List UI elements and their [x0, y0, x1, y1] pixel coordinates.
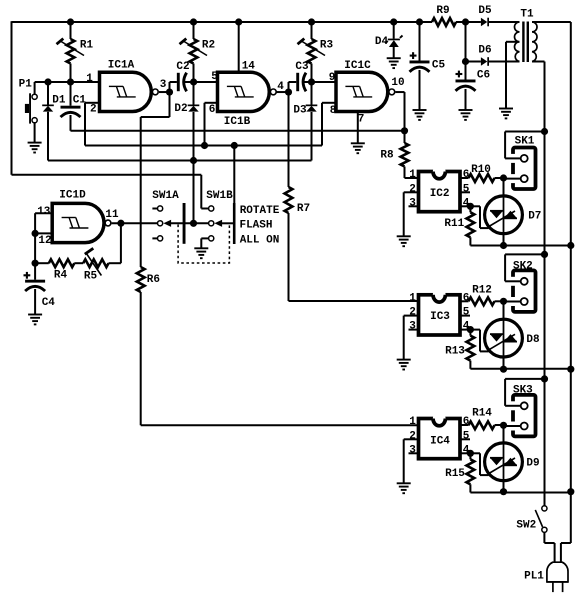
svg-text:FLASH: FLASH [239, 220, 272, 232]
svg-text:5: 5 [463, 430, 470, 442]
svg-text:D7: D7 [528, 211, 541, 223]
svg-text:1: 1 [409, 169, 416, 181]
svg-text:ALL ON: ALL ON [240, 235, 280, 247]
svg-text:3: 3 [409, 197, 416, 209]
svg-text:R15: R15 [445, 468, 465, 480]
svg-text:1: 1 [409, 416, 416, 428]
svg-text:IC1D: IC1D [59, 190, 86, 202]
svg-text:7: 7 [358, 114, 365, 126]
svg-text:PL1: PL1 [524, 571, 544, 583]
svg-text:14: 14 [242, 61, 256, 73]
svg-text:R13: R13 [445, 346, 465, 358]
svg-text:5: 5 [463, 307, 470, 319]
svg-text:R10: R10 [471, 164, 491, 176]
svg-text:4: 4 [463, 444, 470, 456]
svg-text:C5: C5 [432, 60, 446, 72]
svg-text:4: 4 [277, 81, 284, 93]
svg-text:R14: R14 [472, 408, 492, 420]
svg-text:SW1B: SW1B [206, 190, 233, 202]
svg-text:2: 2 [409, 183, 416, 195]
svg-text:6: 6 [463, 169, 470, 181]
svg-text:R9: R9 [436, 5, 449, 17]
svg-text:2: 2 [409, 307, 416, 319]
svg-text:R4: R4 [54, 270, 68, 282]
svg-text:SK3: SK3 [513, 385, 533, 397]
svg-text:SK2: SK2 [513, 261, 533, 273]
svg-text:11: 11 [105, 209, 119, 221]
svg-text:4: 4 [463, 197, 470, 209]
svg-text:R6: R6 [147, 274, 160, 286]
svg-text:IC1A: IC1A [108, 60, 135, 72]
svg-text:R8: R8 [380, 150, 394, 162]
svg-text:3: 3 [409, 444, 416, 456]
svg-text:SK1: SK1 [515, 136, 535, 148]
svg-text:C4: C4 [42, 297, 56, 309]
svg-text:D1: D1 [52, 95, 66, 107]
svg-text:D3: D3 [293, 105, 307, 117]
svg-text:T1: T1 [520, 9, 534, 21]
svg-text:D9: D9 [526, 458, 539, 470]
svg-text:R7: R7 [297, 203, 310, 215]
svg-text:5: 5 [211, 71, 218, 83]
svg-text:R5: R5 [84, 271, 98, 283]
svg-text:5: 5 [463, 183, 470, 195]
svg-text:IC2: IC2 [430, 188, 450, 200]
svg-text:2: 2 [90, 104, 97, 116]
svg-text:D2: D2 [174, 103, 187, 115]
svg-text:3: 3 [160, 79, 167, 91]
svg-text:C3: C3 [295, 61, 309, 73]
svg-text:13: 13 [37, 206, 51, 218]
svg-text:D4: D4 [375, 36, 389, 48]
svg-text:1: 1 [409, 292, 416, 304]
svg-text:C2: C2 [176, 61, 189, 73]
svg-text:R12: R12 [472, 285, 492, 297]
svg-text:6: 6 [463, 292, 470, 304]
svg-text:SW1A: SW1A [152, 190, 179, 202]
svg-text:R2: R2 [202, 40, 215, 52]
svg-text:R1: R1 [80, 40, 94, 52]
svg-text:IC4: IC4 [430, 436, 450, 448]
svg-text:1: 1 [86, 73, 93, 85]
svg-text:4: 4 [463, 321, 470, 333]
svg-text:2: 2 [409, 430, 416, 442]
svg-text:IC1B: IC1B [224, 116, 251, 128]
svg-text:IC3: IC3 [430, 311, 450, 323]
svg-text:R11: R11 [444, 218, 464, 230]
svg-text:6: 6 [209, 104, 216, 116]
svg-text:SW2: SW2 [516, 520, 536, 532]
svg-text:12: 12 [38, 235, 51, 247]
svg-text:3: 3 [409, 321, 416, 333]
svg-text:P1: P1 [19, 79, 33, 91]
svg-text:ROTATE: ROTATE [240, 205, 280, 217]
svg-text:9: 9 [329, 72, 336, 84]
svg-text:IC1C: IC1C [344, 60, 371, 72]
svg-text:8: 8 [330, 105, 337, 117]
svg-text:D8: D8 [526, 334, 540, 346]
svg-text:6: 6 [463, 416, 470, 428]
svg-text:C6: C6 [477, 70, 490, 82]
svg-text:D6: D6 [478, 45, 491, 57]
svg-text:R3: R3 [320, 40, 334, 52]
svg-text:D5: D5 [478, 5, 492, 17]
svg-text:C1: C1 [73, 95, 87, 107]
svg-text:10: 10 [391, 77, 404, 89]
